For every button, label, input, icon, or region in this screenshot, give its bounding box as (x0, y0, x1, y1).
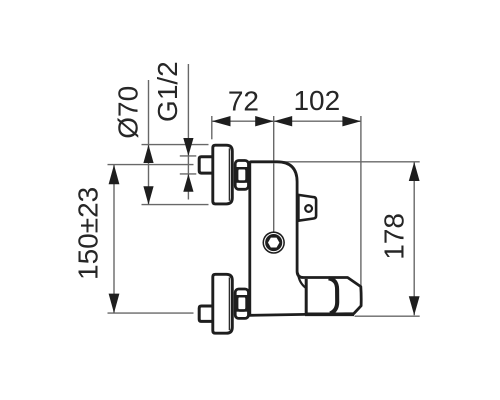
svg-text:102: 102 (293, 85, 340, 116)
svg-text:150±23: 150±23 (72, 187, 103, 280)
svg-text:Ø70: Ø70 (113, 86, 144, 139)
svg-text:72: 72 (228, 85, 259, 116)
svg-text:178: 178 (378, 213, 409, 260)
svg-text:G1/2: G1/2 (152, 61, 183, 122)
